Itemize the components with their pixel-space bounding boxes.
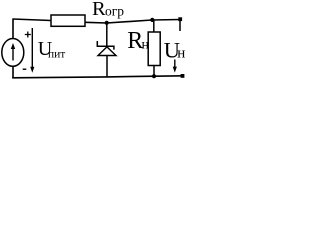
wire left vertical (source top lead) [12, 19, 14, 40]
terminal dot top right [178, 17, 182, 21]
wire zener bottom lead [106, 56, 108, 78]
wire top right stub down [179, 20, 181, 31]
U_pit polarity arrow (down) [31, 28, 33, 71]
minus sign [23, 68, 27, 70]
source U_pit circle [2, 39, 24, 67]
node dot Rn branch bottom [152, 74, 156, 78]
wire Rn top stub [153, 20, 155, 32]
svg-text:пит: пит [48, 49, 65, 61]
node dot zener branch [105, 21, 109, 25]
node dot Rn branch top [150, 18, 154, 22]
resistor R_n (vertical rect) [148, 32, 160, 66]
wire bottom horizontal [12, 76, 183, 78]
svg-text:R: R [92, 0, 106, 20]
svg-text:н: н [177, 46, 185, 62]
U_n output voltage arrow (down) [174, 60, 176, 69]
wire source bottom lead [12, 66, 14, 78]
wire zener top lead [106, 23, 108, 47]
terminal dot bottom right [181, 74, 185, 78]
resistor R_ogr (horizontal rect) [51, 15, 85, 26]
svg-text:огр: огр [105, 3, 124, 18]
source arrow (EMF arrow up inside circle) [12, 46, 14, 61]
svg-text:н: н [142, 37, 150, 52]
zener diode VD triangle (anode, apex up) [98, 47, 116, 56]
wire Rn bottom stub [153, 66, 155, 77]
zener diode VD cathode bar with bent ends [97, 41, 114, 50]
wire top middle (resistor to zener node to Rn node) [85, 20, 181, 24]
wire top left horizontal [13, 19, 51, 21]
plus sign [25, 32, 31, 38]
